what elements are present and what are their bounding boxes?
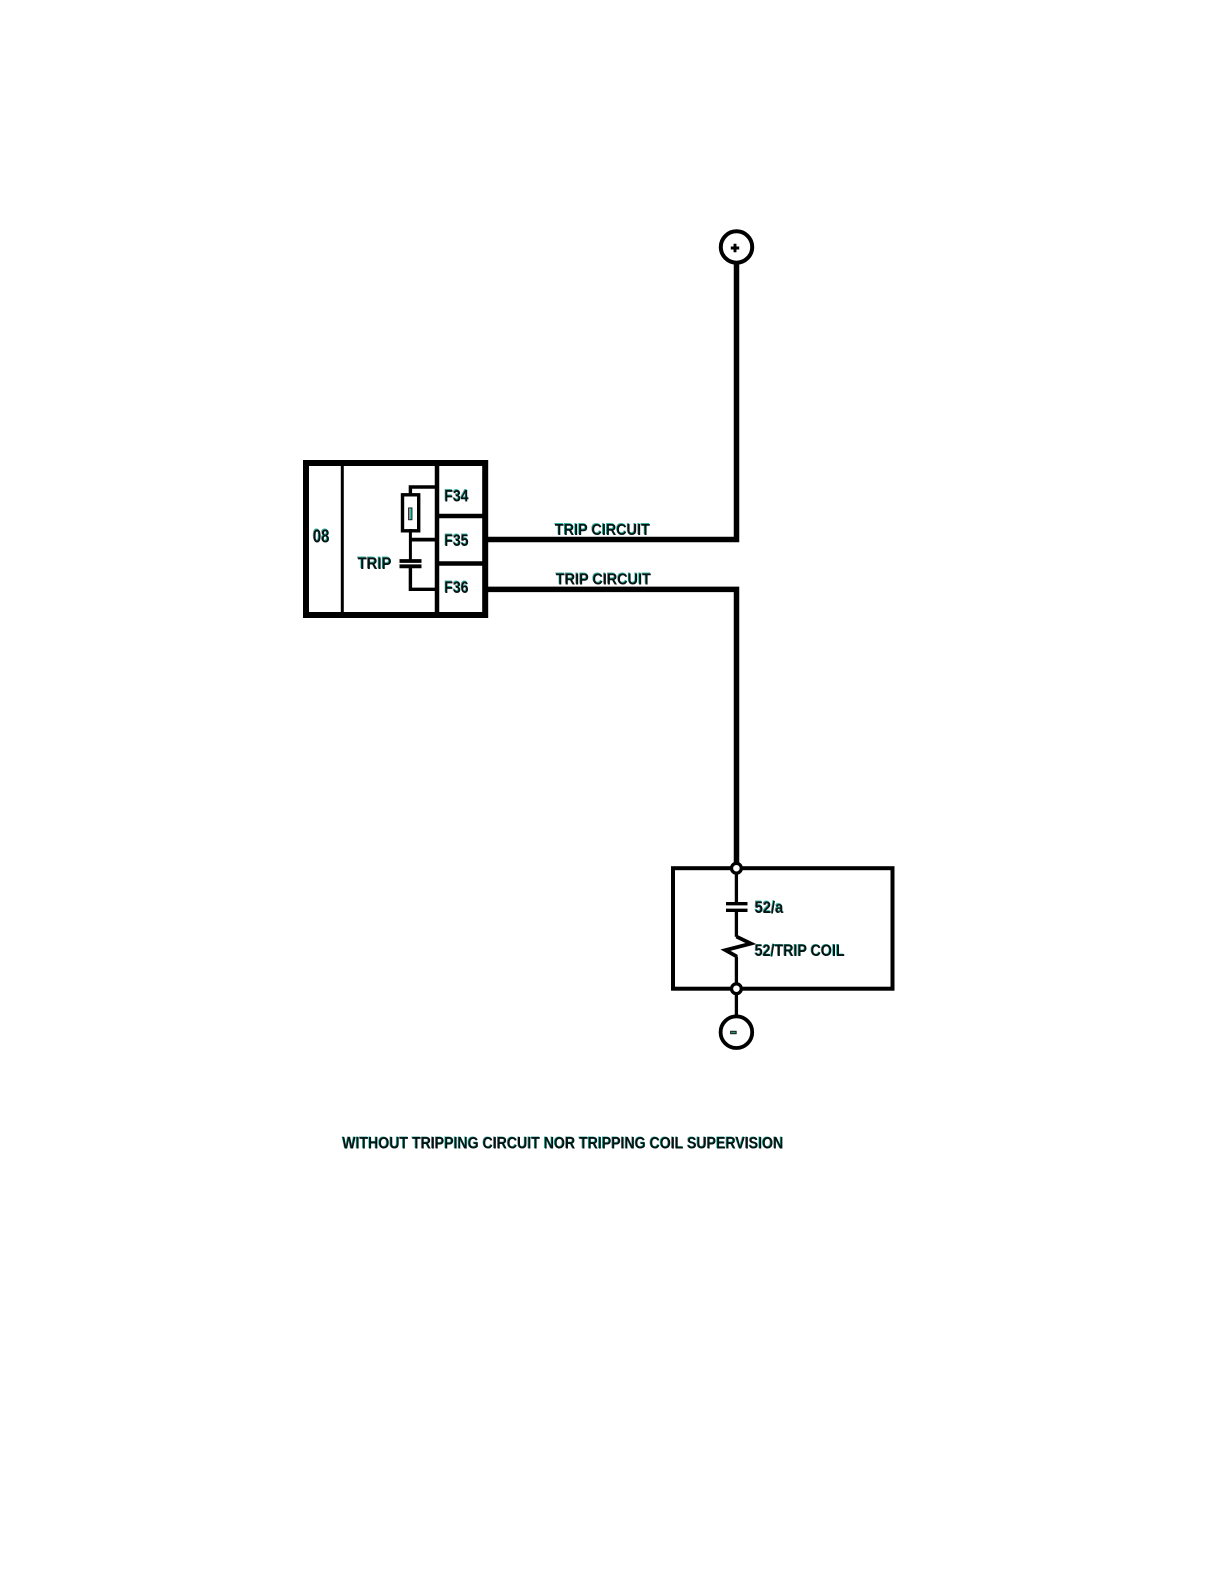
svg-text:08: 08 [313, 526, 329, 546]
node at bottom of 52 box [732, 984, 742, 994]
relay box divider 1 [341, 463, 344, 615]
cell separator F34/F35 [437, 514, 485, 519]
wire resistor bottom down [409, 529, 412, 560]
coil 52/TRIP COIL zigzag [726, 937, 751, 957]
contact 52/a plate bottom [726, 909, 748, 912]
svg-text:52/TRIP COIL: 52/TRIP COIL [755, 941, 845, 960]
svg-text:F36: F36 [444, 578, 468, 597]
svg-text:52/a: 52/a [755, 898, 784, 917]
wire capacitor bottom to F36 [410, 566, 437, 589]
capacitor plate top [400, 559, 422, 563]
wire contact to coil [735, 912, 738, 937]
wire resistor top to F34 cell [410, 487, 437, 496]
cell separator F35/F36 [437, 561, 485, 566]
terminal - (negative supply) [721, 1016, 753, 1048]
svg-text:TRIP CIRCUIT: TRIP CIRCUIT [555, 522, 650, 539]
svg-text:F35: F35 [444, 531, 468, 550]
relay box divider 2 (terminal column) [435, 463, 440, 615]
wire node to 52/a contact [735, 874, 738, 903]
svg-text:TRIP CIRCUIT: TRIP CIRCUIT [556, 571, 651, 588]
contact 52/a plate top [726, 902, 748, 905]
teal tick inside resistor [409, 508, 412, 520]
wire junction to F35 [410, 538, 437, 542]
resistor (output contact) [403, 495, 419, 531]
breaker box 52 outline [673, 868, 893, 989]
terminal + (positive supply) [721, 231, 752, 262]
wire bottom node to - terminal [735, 994, 738, 1017]
node at top of 52 box [732, 863, 742, 873]
svg-text:F34: F34 [444, 486, 469, 505]
svg-text:TRIP: TRIP [358, 554, 392, 573]
wire from terminal F36 right and down to 52 box (TRIP CIRCUIT 2) [485, 589, 737, 864]
capacitor plate bottom [400, 564, 422, 568]
relay box 08 outline [306, 463, 485, 615]
svg-text:WITHOUT TRIPPING CIRCUIT NOR T: WITHOUT TRIPPING CIRCUIT NOR TRIPPING CO… [342, 1135, 783, 1153]
wire coil to bottom node [735, 957, 738, 984]
minus dash [731, 1031, 737, 1034]
wire from + terminal down and left to terminal F35 (TRIP CIRCUIT 1) [485, 262, 737, 540]
